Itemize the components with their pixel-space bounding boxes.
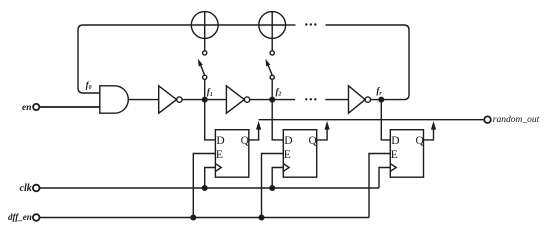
junction clk-DFF1 — [202, 186, 207, 191]
wire Q1 to arrow — [249, 129, 259, 140]
and-gate U1 — [100, 86, 128, 113]
node f1 — [202, 97, 207, 102]
node fr — [379, 97, 384, 102]
wire E input DFF2 — [262, 154, 284, 218]
svg-text:E: E — [216, 149, 223, 161]
input terminal en — [33, 104, 39, 110]
switch S1 stub from xor1 — [204, 38, 206, 50]
svg-text:Q: Q — [309, 135, 318, 147]
switch S2 arm — [268, 65, 272, 75]
wire xor2 to top dots — [286, 24, 296, 26]
switch S2 stub from xor2 — [271, 38, 273, 50]
chain ellipsis dots — [305, 98, 307, 100]
wire clk line — [40, 187, 380, 189]
svg-text:dff_en: dff_en — [8, 212, 32, 222]
arrow Q3 to random_out — [431, 121, 436, 130]
arrow Q2 to random_out — [325, 121, 330, 130]
wire between xor1 and xor2 — [218, 24, 259, 26]
svg-text:D: D — [391, 135, 399, 147]
flip-flop U4 (DFF3) — [390, 130, 423, 178]
svg-text:Q: Q — [241, 135, 250, 147]
wire fr down to D input of DFF3 — [381, 100, 390, 140]
switch S1 arm — [201, 65, 205, 75]
inverter 1 — [159, 86, 177, 113]
wire inverter1 to inverter2 — [182, 99, 226, 101]
svg-text:random_out: random_out — [493, 115, 540, 125]
output terminal random_out — [484, 116, 491, 123]
wire switch2 to node f2 — [271, 79, 273, 99]
svg-text:f0: f0 — [86, 80, 92, 91]
arrow Q1 to random_out — [256, 121, 261, 130]
wire inverter2 to dots — [250, 99, 295, 101]
wire Q2 to arrow — [317, 129, 327, 140]
svg-text:Q: Q — [416, 135, 425, 147]
svg-text:en: en — [22, 103, 32, 113]
wire switch1 to node f1 — [204, 79, 206, 99]
input terminal dff_en — [33, 214, 40, 221]
junction clk-DFF2 — [270, 186, 275, 191]
svg-text:D: D — [216, 135, 224, 147]
inverter 3 — [349, 86, 366, 113]
wire en to AND gate — [39, 106, 100, 108]
wire clock input DFF2 — [272, 168, 283, 189]
inverter 2 — [226, 86, 244, 113]
wire dff_en line — [40, 217, 370, 219]
wire clock input DFF1 — [205, 168, 216, 189]
svg-text:D: D — [284, 135, 292, 147]
wire top dots to feedback right corner down to node fr — [326, 25, 410, 100]
wire Q3 to arrow — [424, 129, 434, 140]
wire AND output — [128, 99, 158, 101]
wire f1 down to D input of DFF1 — [205, 100, 216, 140]
flip-flop U2 (DFF1) — [215, 130, 248, 178]
node f2 — [270, 97, 275, 102]
svg-text:f1: f1 — [207, 87, 213, 98]
wire dots to inverter3 — [325, 99, 348, 101]
svg-text:f2: f2 — [276, 86, 282, 97]
junction dff_en-DFF2 — [259, 215, 264, 220]
wire inverter3 to node fr — [371, 99, 382, 101]
wire E input DFF3 — [369, 154, 390, 218]
wire random_out line — [259, 119, 485, 121]
junction dff_en-DFF1 — [191, 215, 196, 220]
wire clock input DFF3 — [379, 168, 390, 189]
xor gate X1 — [191, 12, 218, 39]
svg-text:E: E — [284, 149, 291, 161]
wire E input DFF1 — [193, 154, 215, 218]
top ellipsis dots — [305, 23, 316, 100]
wire f2 down to D input of DFF2 — [272, 100, 283, 140]
flip-flop U3 (DFF2) — [283, 130, 316, 178]
svg-text:fr: fr — [376, 86, 382, 97]
xor gate X2 — [259, 12, 286, 39]
svg-text:E: E — [391, 149, 398, 161]
input terminal clk — [33, 185, 40, 192]
wire feedback loop left (node f0) — [78, 25, 191, 93]
svg-text:clk: clk — [20, 183, 32, 194]
